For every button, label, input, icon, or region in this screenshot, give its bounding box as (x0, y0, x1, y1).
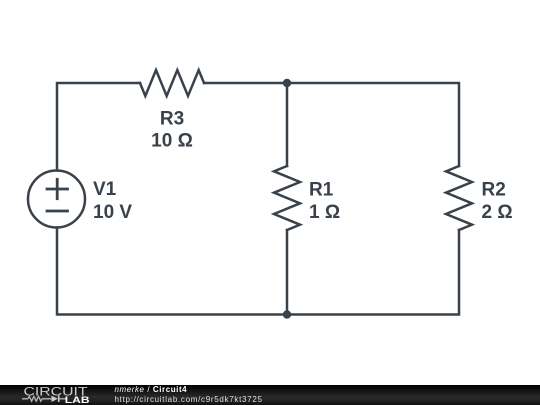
footer bar (0, 385, 540, 405)
CircuitLab logo resistor zigzag and diode (22, 396, 66, 401)
svg-text:LAB: LAB (65, 395, 90, 405)
node A junction dot (283, 79, 291, 87)
svg-text:http://circuitlab.com/c9r5dk7k: http://circuitlab.com/c9r5dk7kt3725 (115, 395, 263, 404)
svg-text:nmerke / Circuit4: nmerke / Circuit4 (115, 385, 188, 394)
wire from node A to top-right corner down to R2 top (287, 83, 459, 166)
node B junction dot (283, 310, 291, 318)
svg-text:R1: R1 (309, 180, 334, 201)
V1 minus sign (47, 210, 68, 213)
voltage source V1 circle (28, 171, 85, 228)
svg-text:1 Ω: 1 Ω (309, 202, 340, 223)
resistor R1 (274, 166, 300, 230)
resistor R3 (140, 70, 204, 96)
wire from R3 right lead to node A (204, 82, 287, 85)
wire from V1 top to top-left corner to R3 left lead (57, 83, 140, 171)
wire from R1 bottom down to node B (286, 230, 289, 315)
wire from node B to bottom-left corner up to V1 bottom (57, 228, 287, 315)
svg-text:10 V: 10 V (93, 202, 132, 223)
svg-text:R3: R3 (160, 109, 184, 130)
svg-text:R2: R2 (482, 180, 506, 201)
logo diode triangle (52, 396, 58, 402)
V1 plus sign (47, 188, 68, 191)
logo diode bar (58, 396, 60, 402)
svg-text:10 Ω: 10 Ω (151, 131, 193, 152)
svg-text:2 Ω: 2 Ω (482, 202, 513, 223)
resistor R2 (446, 166, 472, 230)
wire from R2 bottom to bottom-right corner to node B (287, 230, 459, 315)
wire from node A down to R1 top (286, 83, 289, 166)
svg-text:V1: V1 (93, 179, 117, 200)
